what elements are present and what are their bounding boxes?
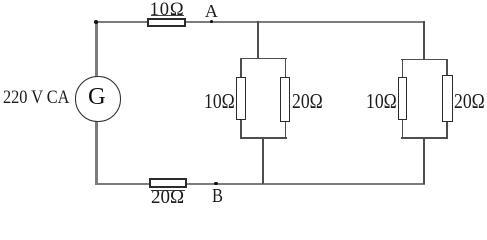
label: node A: [205, 2, 218, 20]
wire: left vertical, top bus down to generator: [95, 21, 97, 77]
label: node B: [212, 186, 223, 207]
wire: right branch stub down to bottom bus: [423, 137, 425, 184]
label: 20Ω for R4: [292, 91, 323, 112]
wire: middle branch top bar: [240, 58, 287, 60]
junction dot at top-left corner: [94, 20, 98, 24]
label: 220 V CA: [3, 88, 69, 107]
node A dot: [210, 20, 213, 23]
resistor R6 20Ω (right branch right): [442, 75, 452, 122]
wire: middle branch bottom bar: [240, 137, 287, 139]
wire: top bus from source corner to right branch: [95, 21, 425, 23]
wire: right branch top bar: [401, 59, 448, 61]
wire: middle branch stub down to bottom bus: [262, 137, 264, 184]
wire: right branch bottom bar: [401, 137, 448, 139]
resistor R3 10Ω (middle branch left): [236, 77, 246, 120]
resistor R1 10Ω (top series): [147, 18, 186, 27]
wire: middle branch stub from top bus: [257, 21, 259, 59]
underline mark under R1 label: [151, 15, 184, 16]
wire: bottom bus: [95, 183, 425, 185]
wire: right branch stub from top bus: [423, 21, 425, 60]
wire: right branch right leg: [446, 59, 448, 139]
wire: middle branch right leg: [285, 58, 287, 139]
resistor R2 20Ω (bottom series): [149, 178, 187, 188]
generator letter G: [88, 85, 106, 110]
wire: right branch left leg: [402, 59, 404, 139]
label: 10Ω for R1: [150, 1, 185, 20]
label: 20Ω for R6: [454, 91, 485, 112]
label: 10Ω for R3: [204, 91, 235, 112]
resistor R4 20Ω (middle branch right): [280, 77, 290, 122]
generator U1: 220 V CA source circle: [75, 76, 120, 121]
wire: middle branch left leg: [240, 58, 242, 139]
wire: left vertical, generator down to bottom bus: [95, 120, 97, 185]
resistor R5 10Ω (right branch left): [398, 77, 407, 120]
label: 10Ω for R5: [366, 91, 397, 112]
label: 20Ω for R2: [151, 187, 184, 207]
node B dot: [214, 182, 217, 185]
overline mark above R2 label: [151, 190, 185, 191]
